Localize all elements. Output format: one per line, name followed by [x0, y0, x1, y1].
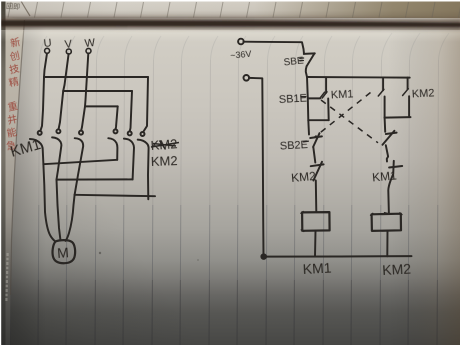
terminal W: [86, 48, 91, 53]
KM1 aux drop: [325, 77, 327, 92]
svg-text:W: W: [84, 37, 96, 50]
svg-text:KM2: KM2: [382, 261, 412, 278]
wire drop to contact4: [116, 106, 118, 129]
SB1 label dash: [301, 96, 306, 98]
wire to motor left: [43, 164, 55, 241]
SB2f blade: [378, 89, 384, 96]
svg-text:KM1: KM1: [302, 260, 332, 277]
SB2 label dash: [304, 140, 309, 143]
KM1 aux blade: [322, 92, 327, 98]
SB1 fixed lead: [308, 97, 320, 99]
wire W down: [81, 53, 88, 130]
dashed link SB2 pair: [315, 93, 371, 138]
KM1 main contact 1: [38, 131, 42, 135]
motor M circle: [53, 240, 76, 263]
coil KM2: [372, 214, 401, 231]
SB1 NC blade: [383, 131, 395, 145]
wire T2 down left rail: [249, 78, 264, 257]
wire drop to contact5: [130, 91, 132, 131]
KM2 main contact 4: [114, 129, 118, 133]
KM2 main contact 6: [141, 132, 145, 136]
wire link A: [43, 160, 117, 164]
terminal W label: [84, 37, 96, 50]
wire rejoin right branch: [385, 116, 411, 119]
KM1 NC blade and wire to coil KM2: [388, 161, 394, 214]
KM2 NC bar: [311, 164, 324, 166]
SB2f lower wire: [384, 97, 386, 118]
stop button SB bar: [304, 52, 315, 55]
SB1 NC bar: [386, 133, 397, 134]
wire SB1 NC to KM1 NC: [386, 145, 388, 161]
KM1 main contact 3: [79, 131, 83, 135]
red slogan characters on spine: [5, 36, 21, 153]
svg-text:KM1: KM1: [372, 168, 398, 184]
SB1 blade: [320, 92, 324, 98]
KM2 aux drop: [407, 78, 409, 90]
SB2 NC bar: [310, 136, 322, 138]
bright curl below fold: [0, 30, 462, 42]
svg-text:~36V: ~36V: [230, 49, 252, 61]
tiny light text bottom of spine: [5, 253, 8, 301]
wire T1 to SB: [244, 42, 304, 54]
terminal V: [66, 49, 71, 54]
KM2 aux blade: [403, 89, 409, 96]
terminal V label: [64, 38, 73, 51]
svg-text:SBE: SBE: [283, 55, 304, 68]
wire bus V to right: [63, 90, 132, 92]
wire coil KM2 to bus: [386, 231, 388, 256]
svg-text:KM2: KM2: [291, 169, 317, 185]
terminal T1: [238, 39, 244, 45]
dashed link SB1 pair: [321, 100, 378, 143]
bottom bus wire: [264, 255, 412, 258]
wire to motor right: [66, 195, 75, 241]
wire link C: [75, 195, 155, 196]
spine / cover strip at left: [2, 17, 25, 347]
terminal U: [45, 48, 50, 53]
KM1 aux lower wire: [327, 99, 330, 121]
stop button SB blade: [307, 53, 315, 66]
white photo frame: [0, 0, 462, 2]
wire down to SB1 NC: [384, 118, 387, 132]
stop button SB wire: [306, 66, 307, 77]
KM2 aux lower wire: [408, 96, 410, 117]
fold shadow band: [0, 17, 462, 30]
junction dot: [261, 254, 266, 259]
wire rejoin KM1 aux: [308, 119, 328, 121]
svg-text:回即: 回即: [6, 3, 20, 12]
SB2 NC blade: [313, 133, 319, 147]
svg-text:M: M: [57, 244, 70, 261]
wire left main vertical upper: [307, 77, 309, 135]
wire V down: [59, 54, 69, 129]
terminal U label: [43, 37, 52, 50]
SB2f drop (right branch): [382, 78, 384, 91]
svg-text:SB1E: SB1E: [279, 93, 308, 106]
wire coil KM1 to bus: [314, 231, 317, 257]
svg-text:KM2: KM2: [412, 87, 435, 100]
KM2 NC blade: [313, 162, 322, 181]
svg-text:SB2E: SB2E: [280, 139, 309, 152]
wire bus U to right: [44, 76, 148, 78]
label KM2 crossed out: [150, 136, 179, 153]
svg-text:KM2: KM2: [151, 153, 178, 169]
wire top line: [307, 76, 410, 79]
coil KM1: [302, 212, 330, 231]
KM2 main contact 5: [128, 131, 132, 135]
wire bus W to right: [85, 105, 118, 107]
wire SB2 to KM2 NC: [313, 147, 315, 163]
wire U down: [41, 53, 48, 130]
KM1 main contact 2: [56, 129, 60, 133]
KM1 NC bar: [389, 166, 402, 168]
upper page strip: [0, 1, 462, 18]
ruled lines of main page: [10, 280, 437, 347]
wire KM2 NC to coil KM1: [315, 181, 318, 213]
wire to motor middle: [57, 180, 61, 241]
svg-text:KM1: KM1: [331, 88, 354, 101]
wire link B: [57, 178, 133, 180]
terminal T2: [244, 75, 250, 81]
wire drop to contact6: [144, 77, 148, 131]
